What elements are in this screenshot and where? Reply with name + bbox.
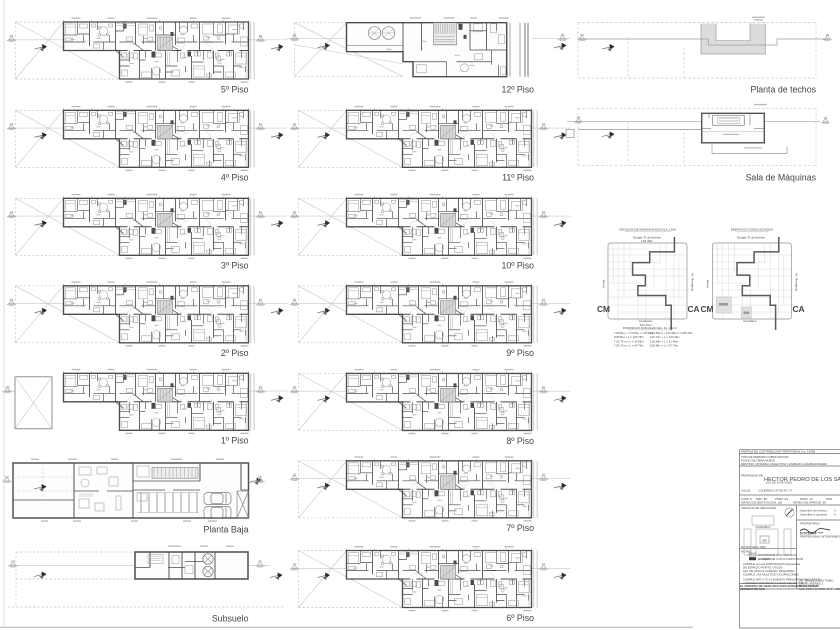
svg-text:5º Piso: 5º Piso xyxy=(221,84,249,94)
svg-text:PROPIEDAD DE:: PROPIEDAD DE: xyxy=(741,474,764,478)
svg-text:7.87(Re) + 7.77(Re) = 7.87(Re): 7.87(Re) + 7.77(Re) = 7.87(Re) xyxy=(614,331,653,335)
svg-text:123.46m: 123.46m xyxy=(641,239,653,243)
svg-text:Estado P. de Bolivia: Estado P. de Bolivia xyxy=(633,235,661,239)
svg-text:HECTOR PEDRO DE LOS SANTOS DIA: HECTOR PEDRO DE LOS SANTOS DIAZ xyxy=(764,477,840,483)
svg-text:Yerbal: Yerbal xyxy=(706,279,710,288)
svg-text:Yerbal: Yerbal xyxy=(602,279,606,288)
svg-text:7º Piso: 7º Piso xyxy=(506,523,534,533)
svg-text:3º Piso: 3º Piso xyxy=(221,261,249,271)
svg-text:CA: CA xyxy=(688,304,700,314)
svg-text:12º Piso: 12º Piso xyxy=(501,84,534,94)
svg-text:11º Piso: 11º Piso xyxy=(502,173,534,183)
svg-text:SERVICIOS CONSOLIDADOS: SERVICIOS CONSOLIDADOS xyxy=(731,228,774,232)
svg-text:CALLE:: CALLE: xyxy=(741,489,751,493)
svg-text:126.77m + L = 123.46m: 126.77m + L = 123.46m xyxy=(650,335,680,339)
svg-text:GRADO DE EDIFICACION: 100: GRADO DE EDIFICACION: 100 xyxy=(741,501,783,505)
svg-text:6º Piso: 6º Piso xyxy=(506,613,534,623)
svg-text:Av. Rivadavia: Av. Rivadavia xyxy=(691,273,695,291)
svg-text:Planta Baja: Planta Baja xyxy=(204,525,249,535)
svg-text:GRADO DE APROVE: 80: GRADO DE APROVE: 80 xyxy=(793,501,826,505)
svg-text:8.87(Re) + L = 126.78m: 8.87(Re) + L = 126.78m xyxy=(614,335,644,339)
svg-text:Sala de Máquinas: Sala de Máquinas xyxy=(746,173,817,183)
svg-text:Condarco: Condarco xyxy=(743,319,757,323)
svg-text:126.38m + L = 27.74m: 126.38m + L = 27.74m xyxy=(650,344,679,348)
svg-text:DESTINO: VIVIENDA COLECTIVA Y: DESTINO: VIVIENDA COLECTIVA Y ESPACIO GU… xyxy=(741,462,827,466)
svg-text:Nº5755A-F ****: Nº5755A-F **** xyxy=(800,532,824,536)
svg-text:NOTA B MAX 1500: NOTA B MAX 1500 xyxy=(741,545,766,549)
svg-text:PROPIETARIO:: PROPIETARIO: xyxy=(800,522,821,526)
svg-text:Subsuelo: Subsuelo xyxy=(212,613,249,623)
svg-text:CA: CA xyxy=(793,304,805,314)
svg-text:7.83.79 m + L = 24.79m: 7.83.79 m + L = 24.79m xyxy=(614,344,644,348)
svg-text:4º Piso: 4º Piso xyxy=(221,173,249,183)
svg-text:Estado P. de Bolivia: Estado P. de Bolivia xyxy=(737,235,765,239)
svg-text:8º Piso: 8º Piso xyxy=(506,436,534,446)
svg-text:2º Piso: 2º Piso xyxy=(221,348,249,358)
svg-text:DIST: DIST xyxy=(826,497,833,501)
svg-text:Superficie a construir:: Superficie a construir: xyxy=(800,513,828,517)
svg-text:CROQUIS DE UBICACION: CROQUIS DE UBICACION xyxy=(741,506,776,510)
svg-text:CROQUIS DE MANZANA ESCALA 1:10: CROQUIS DE MANZANA ESCALA 1:100 xyxy=(619,228,676,232)
svg-text:Planta de techos: Planta de techos xyxy=(750,84,816,94)
svg-text:CM: CM xyxy=(597,304,610,314)
svg-text:DISTANCIAS OFICIALES DE L.F.L.: DISTANCIAS OFICIALES DE L.F.L. A L.O. xyxy=(623,326,678,330)
svg-text:10º Piso: 10º Piso xyxy=(501,261,534,271)
svg-text:1º Piso: 1º Piso xyxy=(221,436,249,446)
svg-text:Superficie de terreno:: Superficie de terreno: xyxy=(800,509,828,513)
svg-text:CM: CM xyxy=(701,304,714,314)
svg-text:CUMPLE LAS MULTITUD OCUPACIONE: CUMPLE LAS MULTITUD OCUPACIONES xyxy=(743,573,799,577)
svg-text:PERMISO DE SUS: PERMISO DE SUS xyxy=(740,587,765,591)
svg-text:126.28m + L = 21.46m: 126.28m + L = 21.46m xyxy=(650,339,679,343)
svg-text:CONDARCO Nº 80 /67 /77: CONDARCO Nº 80 /67 /77 xyxy=(758,489,793,493)
svg-text:PARTIDA DE CONTRIBUCION TERRIT: PARTIDA DE CONTRIBUCION TERRITORIAL Inc.… xyxy=(741,450,815,454)
svg-text:7.83.78 m + L = 24.55m: 7.83.78 m + L = 24.55m xyxy=(614,339,644,343)
svg-text:9º Piso: 9º Piso xyxy=(506,348,534,358)
svg-text:126.35(m) + 123.46(m) = 249.79: 126.35(m) + 123.46(m) = 249.79m xyxy=(650,331,693,335)
svg-text:Av. Rivadavia: Av. Rivadavia xyxy=(795,273,799,291)
